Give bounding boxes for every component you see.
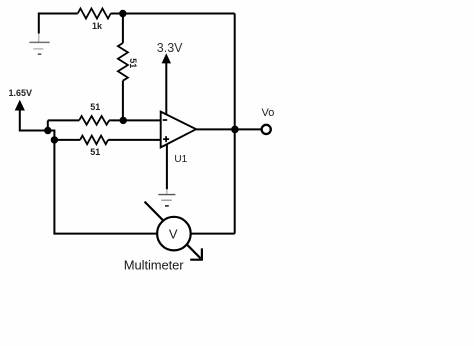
wire row1 right: [109, 119, 161, 121]
multimeter M1 body: [157, 217, 191, 251]
wire source stem: [20, 110, 48, 131]
svg-text:1.65V: 1.65V: [9, 88, 33, 98]
svg-text:Vo: Vo: [262, 107, 275, 119]
node D junction row1/R2: [120, 117, 127, 124]
multimeter probe diagonal: [145, 202, 201, 259]
op-amp U1: [161, 112, 196, 148]
wire node1 riser to row1: [47, 120, 49, 130]
wire op-amp output: [196, 128, 261, 130]
wire node A down: [122, 14, 124, 44]
node B junction node1: [44, 127, 51, 134]
multimeter arrowhead: [190, 248, 203, 259]
svg-text:U1: U1: [174, 154, 187, 165]
wire top to corner: [111, 13, 235, 15]
svg-text:51: 51: [128, 58, 138, 68]
node A top junction: [119, 10, 126, 17]
wire resistor R2 to node B: [122, 81, 124, 121]
wire supply stem: [165, 63, 167, 115]
resistor R2 51 vertical: [118, 43, 128, 81]
wire row1 left: [48, 119, 79, 121]
wire bottom-left corner joint: [53, 233, 55, 235]
resistor R4 51: [80, 136, 108, 145]
supply arrow 3.3V: [162, 53, 171, 63]
wire ground stub top-left: [38, 13, 40, 34]
svg-text:3.3V: 3.3V: [157, 41, 183, 55]
wire top-left horizontal: [39, 13, 78, 15]
source arrow 1.65V: [15, 100, 25, 111]
node C junction node2: [51, 136, 58, 143]
wire row2 left: [54, 139, 80, 141]
ground G2 op-amp: [158, 189, 175, 206]
resistor R3 51: [79, 116, 109, 125]
svg-text:Multimeter: Multimeter: [124, 257, 184, 272]
terminal Vo open circle: [262, 125, 271, 134]
svg-text:1k: 1k: [92, 21, 103, 31]
resistor R1 1k: [78, 9, 111, 19]
svg-text:51: 51: [90, 102, 100, 112]
wire right vertical: [234, 14, 236, 234]
wire op-amp ground stem: [166, 144, 168, 189]
wire bottom horizontal: [54, 233, 234, 235]
wire row2 right: [108, 139, 161, 141]
svg-text:51: 51: [90, 147, 100, 157]
wire left vertical loop: [53, 140, 55, 234]
node E output junction: [231, 126, 239, 134]
wire node1 to node2 jog: [48, 131, 55, 140]
ground G1: [29, 34, 49, 55]
svg-text:V: V: [169, 227, 178, 242]
